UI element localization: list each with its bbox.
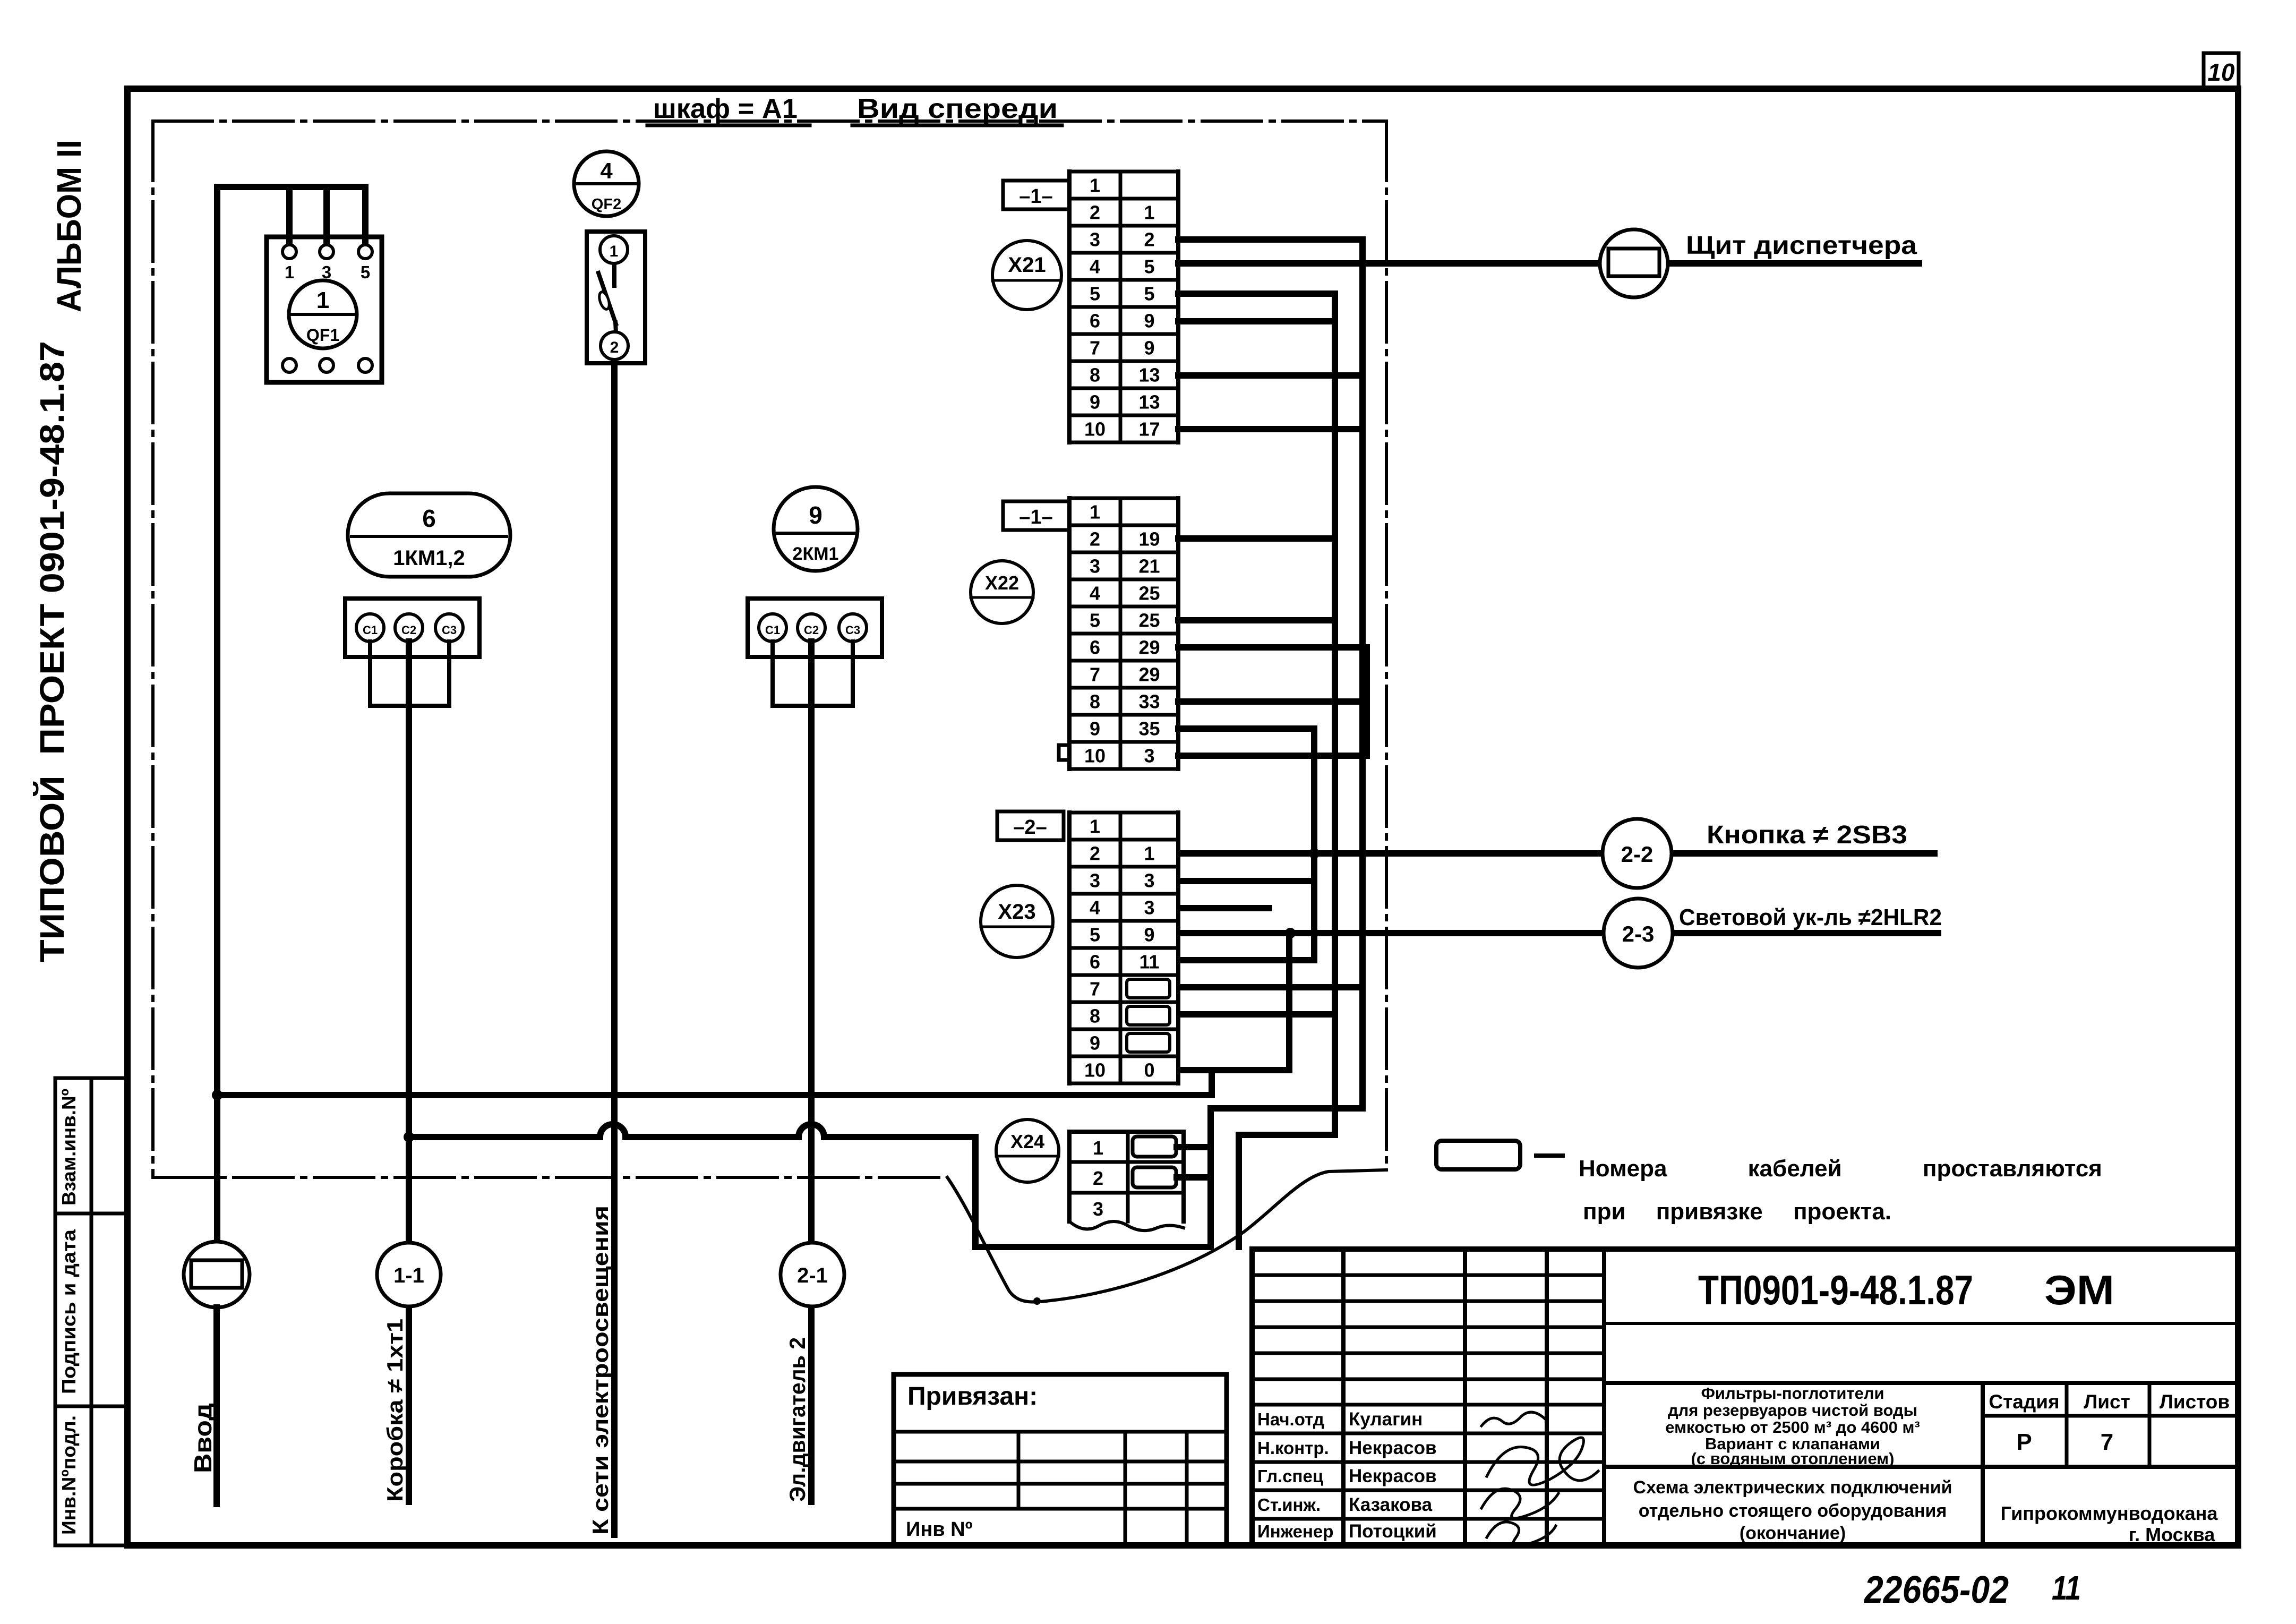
svg-text:2-2: 2-2: [1621, 842, 1654, 867]
wire contactor6 C2 output: [406, 642, 412, 1502]
wire X21.8 stub: [1178, 372, 1363, 379]
wire contactor9 C1-C3 bridge: [773, 642, 853, 706]
wire bus2 under-table route: [975, 1137, 1211, 1247]
svg-text:7: 7: [2101, 1429, 2113, 1455]
contactor 9 terminals C1 C2 C3: [759, 614, 786, 642]
svg-text:QF2: QF2: [592, 196, 621, 213]
svg-text:6: 6: [422, 505, 436, 532]
svg-text:Некрасов: Некрасов: [1349, 1466, 1436, 1486]
svg-text:13: 13: [1138, 364, 1160, 386]
svg-text:29: 29: [1138, 664, 1160, 686]
terminal block X24 circle: [996, 1119, 1059, 1182]
svg-text:7: 7: [1090, 337, 1100, 359]
cabinet outline dip dot: [1033, 1297, 1041, 1305]
svg-text:8: 8: [1090, 1005, 1100, 1027]
svg-text:С1: С1: [363, 623, 378, 637]
svg-text:4: 4: [1090, 256, 1100, 278]
svg-text:2: 2: [1090, 843, 1100, 865]
svg-text:Фильтры-поглотители: Фильтры-поглотители: [1701, 1384, 1884, 1403]
svg-text:13: 13: [1138, 391, 1160, 413]
QF2 pin 1: [600, 236, 628, 263]
svg-text:С1: С1: [765, 623, 780, 637]
svg-text:Привязан:: Привязан:: [907, 1382, 1038, 1411]
wire X23.4 stub: [1181, 905, 1269, 911]
svg-text:Подпись и дата: Подпись и дата: [58, 1229, 80, 1394]
contactor 9 terminal box: [748, 599, 882, 657]
svg-text:Лист: Лист: [2084, 1391, 2130, 1413]
svg-text:отдельно стоящего оборудования: отдельно стоящего оборудования: [1639, 1501, 1947, 1521]
X22 row10 clamp: [1059, 745, 1069, 760]
svg-text:X22: X22: [985, 572, 1019, 594]
svg-text:АЛЬБОМ II: АЛЬБОМ II: [50, 140, 88, 312]
circle 1-1: [377, 1243, 441, 1306]
legend cable symbol: [1436, 1141, 1520, 1169]
svg-text:25: 25: [1138, 583, 1160, 604]
svg-text:0: 0: [1144, 1059, 1154, 1081]
wire V1 step: [1239, 1132, 1335, 1138]
terminal block X24: [1069, 1130, 1184, 1134]
cabinet outline left: [151, 121, 155, 1177]
terminal block X22 circle: [971, 561, 1033, 623]
wire X22.2 stub: [1178, 535, 1335, 542]
svg-text:11: 11: [2052, 1569, 2081, 1607]
svg-text:2-1: 2-1: [797, 1264, 828, 1287]
circle 2-2: [1603, 819, 1672, 888]
contactor 9 label: [774, 487, 858, 571]
svg-text:2: 2: [1144, 229, 1154, 251]
svg-text:QF1: QF1: [306, 326, 339, 345]
svg-text:С3: С3: [442, 623, 457, 637]
contactor 6 terminal box: [345, 599, 479, 657]
wire X21.10 stub: [1178, 426, 1363, 432]
terminal block X21: [1069, 170, 1178, 174]
svg-text:5: 5: [1144, 283, 1154, 305]
svg-text:С3: С3: [845, 623, 860, 637]
wire X23.8 stub: [1181, 1011, 1335, 1018]
wire V1 step riser: [1236, 1135, 1242, 1247]
svg-text:25: 25: [1138, 610, 1160, 631]
svg-text:С2: С2: [401, 623, 416, 637]
svg-text:Световой ук-ль ≠2HLR2: Световой ук-ль ≠2HLR2: [1679, 904, 1942, 930]
wire button 2SB3 tail: [1672, 850, 1934, 857]
svg-text:шкаф = А1: шкаф = А1: [653, 93, 798, 124]
svg-text:6: 6: [1090, 310, 1100, 332]
svg-text:9: 9: [1144, 310, 1154, 332]
svg-text:2: 2: [1090, 528, 1100, 550]
svg-text:10: 10: [2207, 58, 2235, 86]
contactor 6 terminals C1 C2 C3: [356, 614, 384, 642]
cabinet outline dip around X24: [947, 1170, 1386, 1302]
circle 2-3: [1604, 899, 1673, 968]
svg-text:Стадия: Стадия: [1989, 1391, 2059, 1413]
svg-text:ТП0901-9-48.1.87: ТП0901-9-48.1.87: [1698, 1267, 1973, 1313]
svg-text:X23: X23: [998, 900, 1035, 924]
cabinet outline bottom: [153, 1176, 947, 1179]
svg-text:Номера кабелей проставляются: Номера кабелей проставляются: [1579, 1156, 2102, 1182]
svg-text:2: 2: [1090, 202, 1100, 224]
wire X21.4 to dispatcher panel: [1178, 260, 1600, 267]
svg-text:Инженер: Инженер: [1257, 1522, 1333, 1541]
svg-text:9: 9: [809, 501, 823, 529]
svg-text:19: 19: [1138, 528, 1160, 550]
svg-text:4: 4: [1090, 583, 1100, 604]
svg-text:1: 1: [1093, 1137, 1103, 1159]
svg-text:17: 17: [1138, 418, 1160, 440]
svg-text:5: 5: [1090, 610, 1100, 631]
svg-text:1: 1: [285, 262, 294, 282]
QF2 label circle: [574, 151, 639, 216]
svg-text:емкостью от 2500 м³ до 4600 м³: емкостью от 2500 м³ до 4600 м³: [1665, 1418, 1920, 1437]
svg-text:4: 4: [600, 158, 613, 183]
QF2 blade: [612, 264, 616, 286]
svg-text:Нач.отд: Нач.отд: [1257, 1409, 1324, 1429]
wire X23.2 to button 2SB3: [1181, 850, 1603, 857]
wire X23.5 to light indicator: [1181, 930, 1604, 936]
sheet number box: [2204, 53, 2239, 89]
svg-text:Н.контр.: Н.контр.: [1257, 1438, 1329, 1458]
wire X21.3 stub: [1178, 236, 1363, 243]
wire bus1 riser: [1209, 1070, 1215, 1095]
wire vvod tail: [213, 1307, 220, 1504]
svg-text:–1–: –1–: [1019, 185, 1052, 208]
svg-text:1: 1: [1144, 843, 1154, 865]
svg-text:Схема электрических подключени: Схема электрических подключений: [1633, 1477, 1952, 1498]
svg-text:6: 6: [1090, 637, 1100, 659]
svg-text:5: 5: [1090, 924, 1100, 946]
wire riser x2574: [1364, 647, 1370, 756]
svg-text:1: 1: [316, 287, 329, 313]
wire vertical bus V2: [1359, 240, 1366, 1108]
svg-text:2: 2: [1093, 1167, 1103, 1189]
svg-text:Кулагин: Кулагин: [1349, 1409, 1423, 1430]
svg-text:Вид спереди: Вид спереди: [857, 93, 1058, 124]
svg-text:ТИПОВОЙ ПРОЕКТ 0901-9-48.1.87: ТИПОВОЙ ПРОЕКТ 0901-9-48.1.87: [32, 341, 71, 962]
svg-text:1-1: 1-1: [393, 1264, 424, 1287]
wire X23.6 stub: [1181, 957, 1314, 963]
wire riser x2280: [1207, 1108, 1214, 1247]
svg-text:Ввод: Ввод: [189, 1403, 217, 1473]
cable symbol to dispatcher: [1600, 229, 1668, 297]
title block right grid: [1604, 1322, 2238, 1325]
wire QF1 input bus: [217, 184, 365, 190]
svg-text:Некрасов: Некрасов: [1349, 1438, 1436, 1458]
left margin stamp column: [54, 1078, 57, 1545]
wire X22.5 stub: [1178, 617, 1335, 623]
svg-text:3: 3: [1093, 1198, 1103, 1220]
QF1 label circle: [289, 280, 357, 348]
junction X23.5/riser: [1285, 928, 1296, 938]
svg-text:Кнопка ≠ 2SB3: Кнопка ≠ 2SB3: [1707, 821, 1907, 849]
wire vvod riser: [214, 187, 220, 1242]
wire riser x2428: [1286, 933, 1292, 1070]
svg-text:Взам.инв.Nº: Взам.инв.Nº: [58, 1089, 80, 1206]
svg-text:при привязке проекта.: при привязке проекта.: [1583, 1199, 1891, 1225]
svg-text:21: 21: [1138, 555, 1160, 577]
privyazan (bound-to) box: [894, 1374, 1227, 1545]
svg-text:Щит диспетчера: Щит диспетчера: [1686, 232, 1917, 260]
wire X22.10 stub: [1178, 753, 1367, 759]
svg-text:9: 9: [1090, 1032, 1100, 1054]
cabinet outline right: [1385, 121, 1388, 1170]
QF2 pin 2: [601, 332, 628, 360]
svg-text:Листов: Листов: [2160, 1391, 2230, 1413]
svg-text:5: 5: [1090, 283, 1100, 305]
svg-text:Инв.Nºподл.: Инв.Nºподл.: [58, 1415, 80, 1535]
wire riser x2475: [1311, 729, 1317, 960]
svg-text:Ст.инж.: Ст.инж.: [1257, 1495, 1321, 1515]
svg-text:X21: X21: [1008, 253, 1046, 277]
svg-text:33: 33: [1138, 691, 1160, 713]
terminal block X23 label -2-: [997, 811, 1064, 840]
wire X23.10 stub: [1181, 1067, 1289, 1073]
wire X22.9 stub: [1178, 725, 1314, 732]
wire X23.7 stub: [1181, 984, 1363, 990]
svg-text:3: 3: [1090, 870, 1100, 892]
svg-text:22665-02: 22665-02: [1863, 1569, 2009, 1611]
svg-text:6: 6: [1090, 951, 1100, 973]
wire X21.5 stub: [1178, 290, 1335, 297]
junction bus1/vvod: [212, 1090, 222, 1100]
svg-text:9: 9: [1144, 924, 1154, 946]
legend dash: [1536, 1153, 1563, 1158]
wire X24.1 stub: [1177, 1144, 1211, 1150]
svg-text:10: 10: [1084, 1059, 1106, 1081]
svg-text:(с водяным отоплением): (с водяным отоплением): [1691, 1449, 1895, 1468]
terminal block X23 circle: [981, 885, 1053, 958]
svg-text:Р: Р: [2016, 1429, 2032, 1455]
svg-text:г. Москва: г. Москва: [2129, 1524, 2216, 1545]
svg-text:8: 8: [1090, 364, 1100, 386]
svg-text:Инв Nº: Инв Nº: [906, 1518, 973, 1541]
wire light indicator tail: [1673, 930, 1938, 936]
svg-text:35: 35: [1138, 718, 1160, 740]
contactor 6 label: [348, 493, 510, 577]
wire X24.2 stub: [1177, 1174, 1211, 1181]
svg-text:9: 9: [1144, 337, 1154, 359]
terminal block X22 label -1-: [1003, 501, 1069, 530]
svg-text:7: 7: [1090, 664, 1100, 686]
svg-text:4: 4: [1090, 897, 1100, 919]
wire contactor9 C2 output: [808, 642, 815, 1502]
svg-text:Гл.спец: Гл.спец: [1257, 1466, 1323, 1486]
wire bus1 (neutral): [217, 1092, 1212, 1098]
cable symbol vvod: [184, 1242, 250, 1307]
junction bus2/korobka: [404, 1132, 414, 1142]
svg-text:2КМ1: 2КМ1: [793, 544, 839, 564]
wire dispatcher panel tail: [1667, 260, 1919, 267]
svg-text:Эл.двигатель 2: Эл.двигатель 2: [785, 1337, 810, 1502]
svg-text:8: 8: [1090, 691, 1100, 713]
svg-text:2: 2: [610, 339, 619, 356]
svg-text:3: 3: [1090, 229, 1100, 251]
svg-text:Потоцкий: Потоцкий: [1349, 1521, 1437, 1542]
junction X23.2/riser: [1309, 848, 1320, 859]
svg-text:ЭМ: ЭМ: [2044, 1267, 2114, 1313]
wire X22.6 stub: [1178, 644, 1367, 651]
wire vertical bus V1: [1332, 294, 1338, 1135]
svg-text:11: 11: [1139, 951, 1159, 973]
terminal block X22: [1069, 497, 1178, 500]
wire X22.8 stub: [1178, 698, 1363, 705]
svg-text:(окончание): (окончание): [1740, 1523, 1846, 1543]
title block grid: [1252, 1249, 2238, 1545]
svg-text:10: 10: [1084, 745, 1106, 767]
svg-text:–1–: –1–: [1019, 506, 1052, 528]
cabinet title underline: [647, 124, 810, 127]
svg-text:К сети электроосвещения: К сети электроосвещения: [588, 1206, 613, 1535]
terminal block X21 circle: [992, 241, 1061, 310]
wire X23.3 stub: [1181, 878, 1314, 884]
cabinet outline top: [153, 119, 1386, 123]
svg-text:1: 1: [1090, 501, 1100, 523]
terminal block X21 label -1-: [1003, 181, 1069, 209]
wire bus2: [409, 1124, 975, 1137]
svg-text:3: 3: [1144, 870, 1154, 892]
svg-text:1КМ1,2: 1КМ1,2: [393, 546, 465, 570]
svg-text:29: 29: [1138, 637, 1160, 659]
terminal block X23: [1069, 811, 1178, 815]
svg-text:С2: С2: [804, 623, 819, 637]
wire QF2 output: [611, 363, 618, 1535]
svg-text:X24: X24: [1010, 1131, 1044, 1152]
svg-text:10: 10: [1084, 418, 1106, 440]
svg-text:3: 3: [1144, 745, 1154, 767]
svg-text:5: 5: [361, 262, 370, 282]
svg-text:5: 5: [1144, 256, 1154, 278]
QF1 bottom terminals: [282, 358, 296, 372]
svg-text:Казакова: Казакова: [1349, 1494, 1433, 1515]
svg-text:1: 1: [610, 243, 619, 260]
svg-text:1: 1: [1090, 816, 1100, 837]
wire contactor6 C1-C3 bridge: [370, 642, 449, 706]
svg-text:9: 9: [1090, 391, 1100, 413]
title block signatures: [1481, 1412, 1545, 1426]
svg-text:Коробка ≠ 1хт1: Коробка ≠ 1хт1: [382, 1319, 407, 1502]
svg-text:9: 9: [1090, 718, 1100, 740]
svg-text:3: 3: [1090, 555, 1100, 577]
svg-text:1: 1: [1090, 175, 1100, 196]
svg-text:Гипрокоммунводокана: Гипрокоммунводокана: [2001, 1502, 2218, 1524]
QF1 top terminals: [282, 245, 296, 259]
circuit breaker QF1 body: [267, 237, 382, 382]
wire X21.6 stub: [1178, 318, 1335, 324]
circle 2-1: [781, 1243, 844, 1306]
svg-text:1: 1: [1144, 202, 1154, 224]
svg-text:7: 7: [1090, 978, 1100, 1000]
wire V2 step: [1211, 1105, 1363, 1112]
svg-text:3: 3: [1144, 897, 1154, 919]
svg-text:для резервуаров чистой воды: для резервуаров чистой воды: [1668, 1401, 1917, 1420]
wire QF1 terminal drops: [286, 187, 293, 244]
svg-text:2-3: 2-3: [1622, 921, 1655, 946]
switch QF2 body: [587, 232, 645, 363]
svg-text:–2–: –2–: [1013, 816, 1047, 839]
